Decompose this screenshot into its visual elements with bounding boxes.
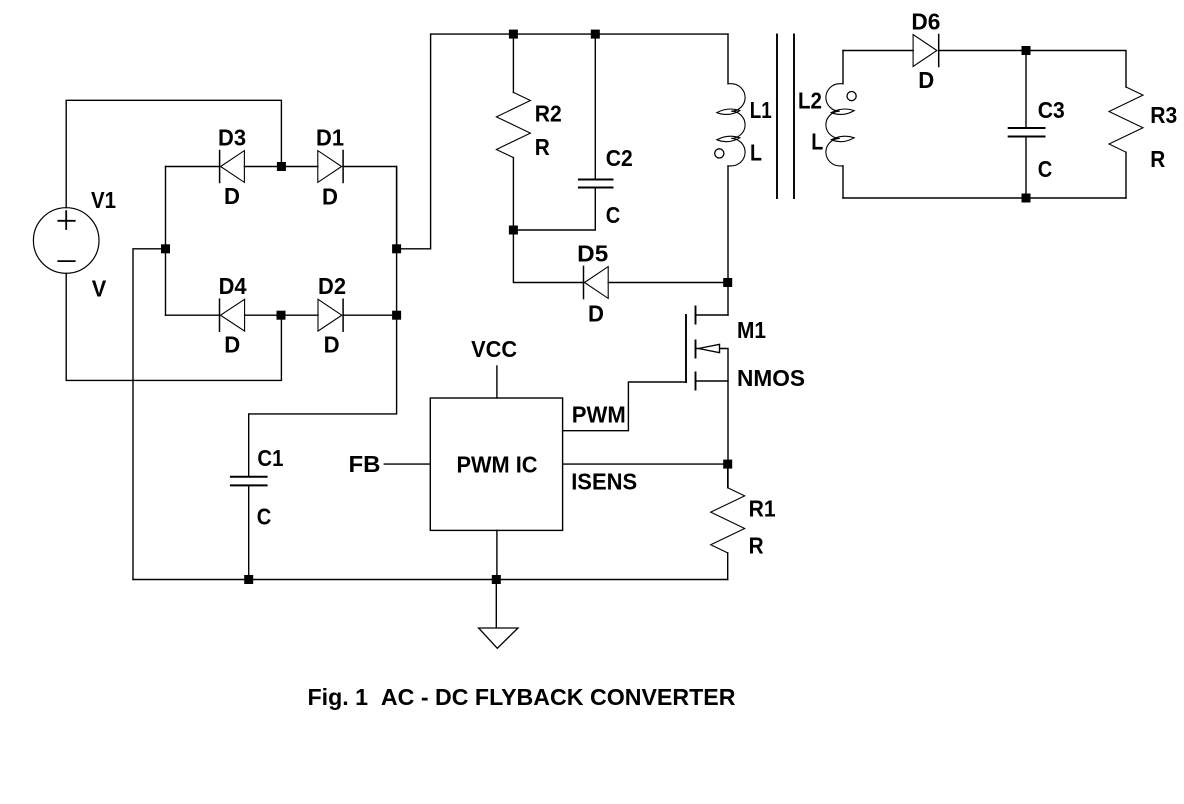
wire R2 to node C	[512, 158, 514, 230]
wire bridge output to C1 top	[249, 315, 397, 476]
svg-text:C: C	[257, 504, 272, 530]
svg-text:Fig. 1 AC - DC FLYBACK CONVER: Fig. 1 AC - DC FLYBACK CONVERTER	[308, 684, 736, 710]
svg-text:PWM: PWM	[572, 401, 626, 427]
capacitor C2	[579, 180, 613, 188]
wire secondary bottom rail	[843, 197, 1126, 199]
wire D6 to node OUT	[939, 50, 1026, 52]
svg-text:M1: M1	[737, 317, 766, 343]
wire node A to D1	[281, 166, 317, 168]
svg-text:L: L	[811, 129, 823, 155]
svg-text:ISENS: ISENS	[571, 469, 637, 495]
wire VCC pin	[496, 366, 498, 398]
junction ground rail	[492, 575, 501, 584]
junction node B D4-D2	[277, 311, 286, 320]
svg-text:D4: D4	[219, 273, 247, 299]
svg-text:C: C	[606, 202, 621, 228]
wire V1 bottom to node B	[66, 273, 281, 380]
PWM controller U1 PWM IC	[430, 398, 562, 530]
svg-text:D: D	[322, 184, 338, 210]
wire bridge top row left	[166, 166, 220, 168]
svg-text:R: R	[1150, 146, 1165, 172]
wire node ISENS to R1	[727, 464, 729, 488]
junction node A D3-D1	[277, 162, 286, 171]
resistor R1	[711, 488, 745, 553]
junction bridge right bottom	[392, 311, 401, 320]
svg-text:NMOS: NMOS	[737, 365, 805, 391]
svg-text:D1: D1	[316, 125, 344, 151]
wire L2 top	[842, 51, 844, 84]
wire top rail to C2	[594, 34, 596, 178]
wire M1 source to node ISENS	[727, 381, 729, 488]
svg-text:D: D	[224, 183, 240, 209]
svg-text:D: D	[324, 331, 340, 357]
junction node C R2-C2	[509, 226, 518, 235]
junction drain node D5	[723, 278, 732, 287]
diode D6	[913, 35, 939, 67]
capacitor C3	[1009, 128, 1045, 137]
inductor L2 secondary winding	[826, 84, 854, 166]
svg-text:R1: R1	[749, 496, 776, 522]
wire L2 bottom	[842, 166, 844, 198]
svg-text:R: R	[535, 134, 550, 160]
wire PWM IC ground pin	[496, 530, 498, 579]
wire node B to D2	[281, 314, 318, 316]
svg-text:C1: C1	[257, 445, 283, 471]
wire D2 to bridge right column	[343, 314, 397, 316]
wire bridge left column	[165, 167, 167, 316]
ground	[479, 580, 518, 649]
diode D2	[318, 299, 343, 331]
wire bridge plus output to top rail	[397, 34, 728, 249]
wire node OUT to R3	[1026, 51, 1126, 88]
resistor R2	[496, 92, 530, 157]
svg-text:R: R	[749, 532, 764, 558]
svg-text:L1: L1	[750, 97, 772, 123]
wire ISENS pin to node ISENS	[563, 463, 728, 465]
wire top rail to L1	[727, 34, 729, 84]
junction C1 bottom rail	[244, 575, 253, 584]
wire node C to D5	[513, 230, 583, 283]
voltage source V1	[33, 208, 99, 274]
svg-text:PWM IC: PWM IC	[457, 451, 538, 477]
wire PWM pin to M1 gate	[563, 382, 686, 431]
wire C3 bottom	[1025, 138, 1027, 199]
inductor L1 primary winding	[717, 84, 745, 166]
svg-text:V1: V1	[91, 187, 116, 213]
diode D3	[220, 151, 245, 183]
diode D4	[220, 299, 245, 331]
resistor R3	[1109, 87, 1143, 152]
wire V1 top to bridge node A	[66, 100, 281, 207]
svg-text:D3: D3	[218, 125, 246, 151]
junction bridge left node	[161, 244, 170, 253]
svg-text:L2: L2	[798, 88, 822, 114]
svg-text:C3: C3	[1038, 97, 1065, 123]
junction top rail R2	[509, 30, 518, 39]
polarity dot of L2	[847, 92, 856, 101]
wire bridge right column	[396, 167, 398, 316]
wire D4 to node B	[245, 314, 281, 316]
polarity dot of L1	[715, 149, 724, 158]
wire L1 to MOSFET drain	[727, 166, 729, 315]
junction node OUT C3 top	[1022, 46, 1031, 55]
svg-text:R2: R2	[535, 101, 562, 127]
junction C3 bottom	[1022, 194, 1031, 203]
svg-text:D6: D6	[911, 9, 940, 35]
svg-text:C: C	[1038, 156, 1053, 182]
wire R1 to bottom rail	[727, 553, 729, 580]
junction top rail C2	[591, 30, 600, 39]
wire R3 to secondary bottom rail	[1125, 152, 1127, 198]
wire D1 to bridge right column	[343, 167, 397, 249]
wire D3 to node A	[244, 166, 281, 168]
wire bridge bottom row left	[166, 314, 220, 316]
wire C2 bottom to node C	[513, 189, 595, 231]
diode D5	[584, 266, 609, 298]
wire bridge left node to bottom rail	[133, 249, 166, 580]
wire L2 to D6	[843, 50, 913, 52]
wire top rail to R2	[512, 34, 514, 92]
diode D1	[318, 151, 343, 183]
wire FB pin	[384, 463, 430, 465]
svg-text:D: D	[588, 301, 604, 327]
svg-text:C2: C2	[606, 145, 633, 171]
svg-text:L: L	[750, 140, 762, 166]
svg-text:D5: D5	[577, 240, 608, 266]
svg-text:D2: D2	[318, 273, 346, 299]
wire node OUT to C3	[1025, 51, 1027, 128]
capacitor C1	[231, 477, 267, 486]
transformer core	[777, 34, 794, 198]
wire D5 to drain node	[608, 282, 728, 284]
svg-text:D: D	[224, 331, 240, 357]
svg-text:FB: FB	[349, 451, 381, 477]
svg-text:R3: R3	[1150, 102, 1177, 128]
svg-text:VCC: VCC	[471, 336, 517, 362]
wire C1 bottom to rail	[248, 486, 250, 579]
junction node ISENS	[723, 460, 732, 469]
junction bridge right node	[392, 244, 401, 253]
transistor M1	[686, 307, 728, 390]
svg-text:V: V	[92, 276, 107, 302]
wire bottom rail	[133, 579, 728, 581]
svg-text:D: D	[918, 67, 934, 93]
